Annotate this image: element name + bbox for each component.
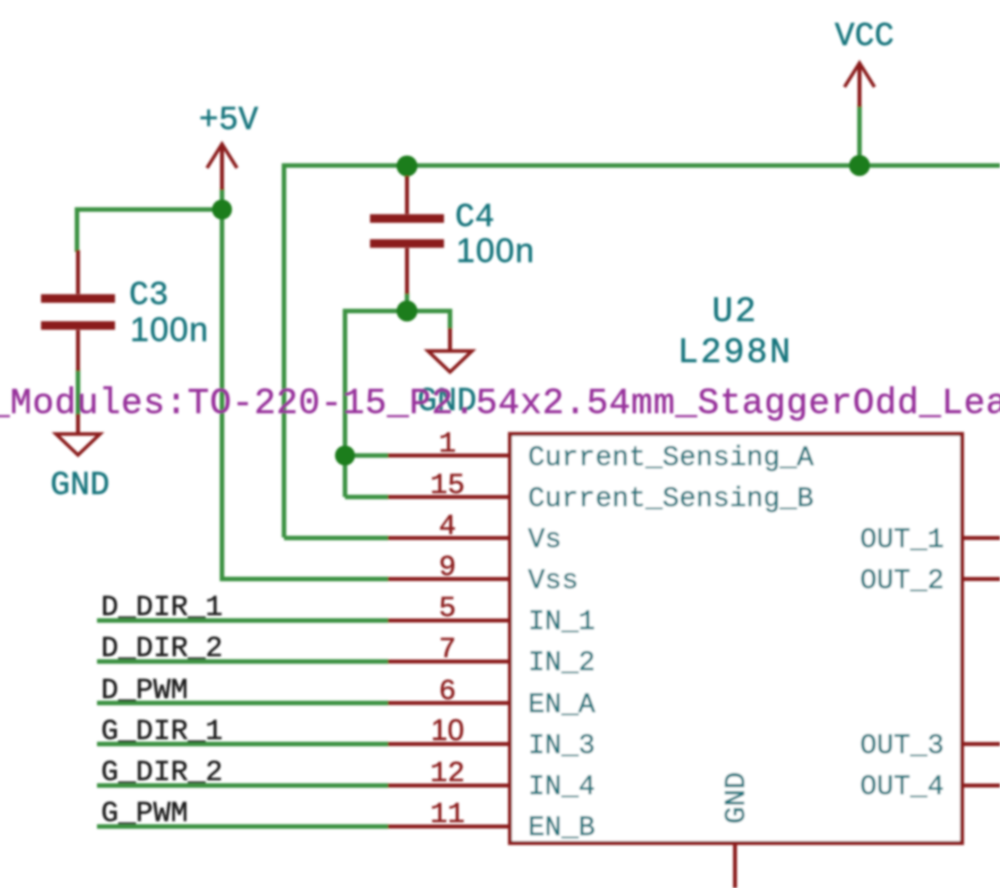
capacitor C3 xyxy=(41,250,115,371)
power +5V xyxy=(207,144,237,190)
svg-text:Current_Sensing_A: Current_Sensing_A xyxy=(528,443,814,474)
wire pin15 xyxy=(345,495,389,500)
svg-text:G_PWM: G_PWM xyxy=(101,797,188,830)
svg-text:EN_B: EN_B xyxy=(528,813,595,844)
junction pin1 node xyxy=(335,446,355,466)
svg-text:IN_1: IN_1 xyxy=(528,607,595,638)
power VCC xyxy=(845,63,875,107)
svg-text:D_PWM: D_PWM xyxy=(101,674,188,707)
svg-text:C4: C4 xyxy=(455,199,495,236)
svg-text:U2: U2 xyxy=(712,292,758,332)
pin 9 Vss xyxy=(388,577,510,581)
pin 5 IN_1 xyxy=(388,619,510,623)
pin 10 IN_3 xyxy=(388,742,510,746)
svg-text:G_DIR_2: G_DIR_2 xyxy=(101,756,223,789)
pin 3 OUT_2 xyxy=(962,577,1000,581)
pin 13 OUT_3 xyxy=(962,742,1000,746)
svg-text:10: 10 xyxy=(431,714,464,747)
svg-text:OUT_2: OUT_2 xyxy=(860,566,944,597)
svg-text:D_DIR_1: D_DIR_1 xyxy=(101,591,223,624)
pin 7 IN_2 xyxy=(388,660,510,664)
junction C4 bottom node xyxy=(397,301,418,322)
svg-text:100n: 100n xyxy=(456,232,535,270)
wire +5V vertical to Vss xyxy=(222,188,389,579)
svg-text:VCC: VCC xyxy=(835,18,894,55)
pin 11 EN_B xyxy=(388,825,510,829)
svg-text:Current_Sensing_B: Current_Sensing_B xyxy=(528,484,814,515)
ground GND under C4 xyxy=(428,328,472,372)
svg-text:12: 12 xyxy=(430,757,465,790)
junction VCC node xyxy=(849,155,870,176)
svg-text:Vss: Vss xyxy=(528,566,578,597)
svg-text:4: 4 xyxy=(439,510,456,543)
svg-text:OUT_3: OUT_3 xyxy=(860,731,944,762)
svg-text:C3: C3 xyxy=(129,277,169,314)
wire C4 bottom stub xyxy=(405,292,410,311)
pin 4 Vs xyxy=(388,536,510,540)
svg-text:GND: GND xyxy=(720,772,753,824)
ground GND under C3 xyxy=(56,414,100,455)
svg-text:IN_2: IN_2 xyxy=(528,648,595,679)
svg-text:IN_3: IN_3 xyxy=(528,731,595,762)
svg-text:9: 9 xyxy=(439,551,456,584)
svg-text:5: 5 xyxy=(439,592,456,625)
svg-text:D_DIR_2: D_DIR_2 xyxy=(101,632,223,665)
wire pin1 xyxy=(345,453,389,458)
wire C4 top stub xyxy=(405,166,410,180)
wire C4 gnd horizontal xyxy=(345,311,450,497)
pin 12 IN_4 xyxy=(388,784,510,788)
wire label D_PWM xyxy=(97,701,389,706)
wire label G_DIR_1 xyxy=(97,742,389,747)
wire label D_DIR_1 xyxy=(97,618,389,623)
wire top bus xyxy=(284,166,1000,538)
svg-text:6: 6 xyxy=(439,675,456,708)
svg-text:100n: 100n xyxy=(130,311,209,349)
wire Vs pin4 xyxy=(284,536,389,541)
svg-text:IN_4: IN_4 xyxy=(528,772,595,803)
svg-text:11: 11 xyxy=(430,798,465,831)
svg-text:_Modules:TO-220-15_P2.54x2.54m: _Modules:TO-220-15_P2.54x2.54mm_StaggerO… xyxy=(0,383,1000,424)
junction C4 top node xyxy=(397,156,418,177)
wire label G_PWM xyxy=(97,824,389,829)
pin 1 Current_Sensing_A xyxy=(388,454,510,458)
junction +5V node xyxy=(212,200,232,220)
svg-text:15: 15 xyxy=(430,469,465,502)
pin 8 GND bottom xyxy=(733,843,737,888)
svg-text:EN_A: EN_A xyxy=(528,690,595,721)
pin 6 EN_A xyxy=(388,701,510,705)
wire VCC stub xyxy=(857,105,862,166)
svg-text:L298N: L298N xyxy=(677,333,792,373)
svg-text:7: 7 xyxy=(439,633,456,666)
wire +5V horizontal xyxy=(77,210,222,253)
svg-text:+5V: +5V xyxy=(199,102,259,139)
pin 14 OUT_4 xyxy=(962,784,1000,788)
svg-text:G_DIR_1: G_DIR_1 xyxy=(101,715,223,748)
wire label D_DIR_2 xyxy=(97,659,389,664)
svg-text:OUT_4: OUT_4 xyxy=(860,772,944,803)
capacitor C4 xyxy=(370,176,444,294)
op-amp U2 body xyxy=(510,434,962,843)
svg-text:GND: GND xyxy=(50,467,109,504)
wire label G_DIR_2 xyxy=(97,783,389,788)
svg-text:1: 1 xyxy=(439,428,456,461)
pin 2 OUT_1 xyxy=(962,536,1000,540)
pin 15 Current_Sensing_B xyxy=(388,495,510,499)
svg-text:OUT_1: OUT_1 xyxy=(860,525,944,556)
svg-text:Vs: Vs xyxy=(528,525,562,556)
wire C3 gnd segment xyxy=(76,369,81,416)
